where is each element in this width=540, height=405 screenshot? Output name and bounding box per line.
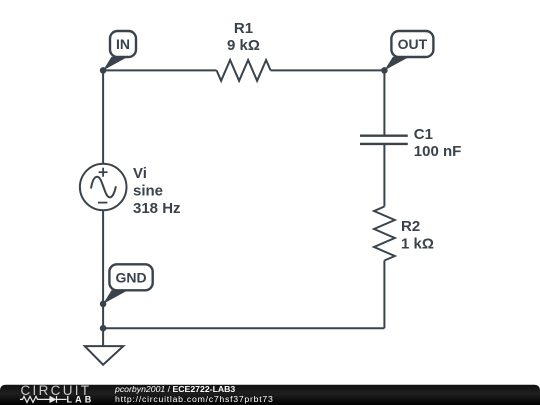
svg-text:9 kΩ: 9 kΩ [227,37,260,54]
label Vi value [133,165,181,217]
svg-text:http://circuitlab.com/c7hsf37p: http://circuitlab.com/c7hsf37prbt73 [115,394,274,404]
node flag IN [103,31,136,70]
wire: C1 bottom plate to R2 top [383,144,385,207]
resistor R1 [217,60,271,81]
junction dot bottom-left [100,325,107,332]
footer credit text [114,384,274,404]
resistor R2 [374,207,395,261]
svg-text:1 kΩ: 1 kΩ [401,236,434,253]
node IN dot [100,67,107,74]
svg-text:Vi: Vi [133,165,147,182]
svg-text:sine: sine [133,183,163,200]
wire: GND junction down to ground symbol [102,328,104,346]
svg-text:R1: R1 [234,20,253,37]
node flag GND [103,264,153,304]
label C1 value [414,126,462,160]
node OUT dot [381,67,388,74]
node GND dot [100,301,107,308]
ground [85,346,124,365]
wire: source bottom to GND node [102,210,104,328]
svg-text:LAB: LAB [67,395,95,405]
wire: left vertical IN node to source V1 top [102,70,104,163]
svg-text:C1: C1 [414,126,433,143]
svg-text:GND: GND [115,269,146,285]
node flag OUT [384,31,433,70]
svg-text:100 nF: 100 nF [414,143,462,160]
voltage source Vi (sine) [80,164,127,211]
label R2 value [401,218,434,253]
svg-text:OUT: OUT [398,36,428,52]
wire: R2 bottom to bottom-right corner [383,261,385,329]
svg-text:R2: R2 [401,218,420,235]
CircuitLab logo [20,383,94,405]
wire: OUT node down to C1 top plate [383,70,385,135]
wire: bottom horizontal GND to right column [103,327,384,329]
label R1 value [227,20,260,54]
svg-text:318 Hz: 318 Hz [133,200,181,217]
capacitor C1 [360,136,408,144]
svg-text:pcorbyn2001 / ECE2722-LAB3: pcorbyn2001 / ECE2722-LAB3 [114,384,235,394]
footer bar [0,385,540,405]
wire: IN node to R1 left [103,69,217,71]
wire: R1 right to OUT node [271,69,385,71]
svg-text:IN: IN [116,36,130,52]
